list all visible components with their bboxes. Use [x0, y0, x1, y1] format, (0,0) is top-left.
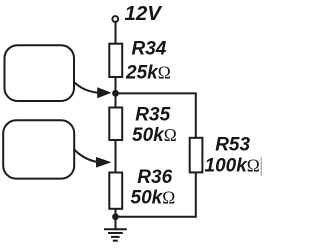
resistor R35 [109, 108, 122, 141]
wire: node A to R35 top [115, 93, 117, 108]
resistor R36 [109, 173, 122, 209]
ground [104, 217, 127, 241]
wire: R35 bottom to R36 top [115, 140, 117, 174]
terminal 12V (open circle) [112, 16, 118, 22]
callout box 2 [3, 120, 74, 178]
svg-text:50kΩ: 50kΩ [132, 125, 177, 146]
wire: R34 bottom to node A [115, 77, 117, 93]
callout box 1 [5, 45, 75, 101]
svg-text:R53: R53 [215, 134, 250, 155]
wire: terminal to R34 top [115, 22, 117, 45]
resistor R53 [190, 138, 203, 173]
svg-text:R34: R34 [132, 38, 167, 59]
node A junction dot [112, 90, 119, 97]
wire: R36 bottom to node B [115, 209, 117, 217]
svg-text:12V: 12V [125, 2, 164, 25]
node B junction dot [112, 213, 119, 220]
svg-text:R36: R36 [137, 167, 172, 188]
svg-text:25kΩ: 25kΩ [125, 62, 171, 83]
wire: node A right and down to R53 top [116, 93, 196, 138]
leader arrow 1 to node A [75, 83, 112, 99]
leader arrow 2 to R35-R36 wire [74, 150, 111, 168]
svg-text:100kΩ: 100kΩ [205, 155, 260, 176]
svg-text:R35: R35 [135, 105, 170, 126]
wire: node B right and up to R53 bottom [116, 172, 196, 217]
svg-text:50kΩ: 50kΩ [131, 188, 176, 209]
resistor R34 [109, 44, 122, 77]
